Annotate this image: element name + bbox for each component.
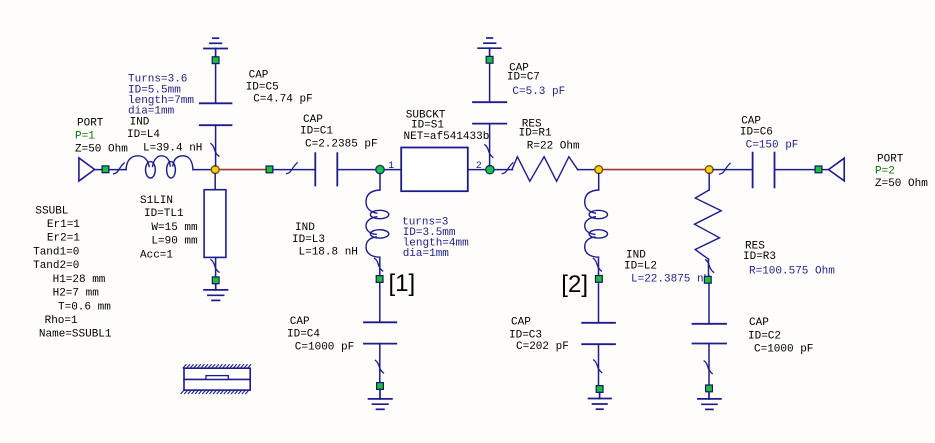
tune marker on R3 bottom <box>706 260 714 273</box>
wire <box>379 257 381 276</box>
inductor L2 labels <box>624 249 710 285</box>
wire <box>468 169 486 171</box>
svg-text:CAP: CAP <box>249 69 269 81</box>
wire <box>713 169 753 171</box>
svg-text:ID=R3: ID=R3 <box>743 251 776 263</box>
green handle on C4 bottom <box>377 383 384 390</box>
ground (top, C5 chain) <box>204 38 227 57</box>
tune marker on TL1 bottom <box>211 260 219 273</box>
resistor R1 labels <box>519 118 580 152</box>
svg-text:L=22.3875 nH: L=22.3875 nH <box>631 273 710 285</box>
svg-text:CAP: CAP <box>749 317 769 329</box>
svg-text:C=1000 pF: C=1000 pF <box>295 341 354 353</box>
tune marker on L3 bottom <box>375 258 383 271</box>
svg-text:ID=L4: ID=L4 <box>127 129 160 141</box>
tune marker on C2 bottom <box>704 361 712 374</box>
wire (red net) <box>599 169 710 171</box>
svg-text:ID=L2: ID=L2 <box>624 260 657 272</box>
wire <box>215 257 217 277</box>
svg-text:IND: IND <box>295 222 315 234</box>
wire <box>215 125 217 166</box>
svg-text:ID=C4: ID=C4 <box>287 329 320 341</box>
green handle on P2 wire <box>815 166 822 173</box>
svg-text:ID=C7: ID=C7 <box>507 72 540 84</box>
svg-text:H1=28 mm: H1=28 mm <box>53 274 106 286</box>
wire <box>494 169 512 171</box>
resistor R1 <box>512 157 578 182</box>
tune marker on C3 bottom <box>594 360 602 373</box>
tune marker on C6 wire <box>720 163 731 174</box>
green handle on C2 bottom <box>706 385 713 392</box>
resistor R3 labels <box>743 240 835 277</box>
svg-text:L=90 mm: L=90 mm <box>151 236 198 248</box>
svg-text:Tand1=0: Tand1=0 <box>33 246 79 258</box>
svg-text:PORT: PORT <box>877 153 904 165</box>
svg-text:Name=SSUBL1: Name=SSUBL1 <box>39 329 112 341</box>
wire <box>384 169 401 171</box>
capacitor C5 <box>200 103 232 125</box>
tune marker on R1 wire <box>502 163 513 174</box>
resistor R3 <box>695 190 722 259</box>
svg-text:Acc=1: Acc=1 <box>140 249 173 261</box>
svg-text:C=202 pF: C=202 pF <box>516 341 569 353</box>
tune marker on C4 bottom <box>375 360 383 373</box>
svg-text:C=150 pF: C=150 pF <box>746 140 799 152</box>
green handle on L3 bottom <box>376 276 383 283</box>
svg-text:Er1=1: Er1=1 <box>47 219 80 231</box>
wire <box>337 169 376 171</box>
capacitor C4 <box>364 322 396 343</box>
wire <box>273 169 315 171</box>
svg-text:C=2.2385 pF: C=2.2385 pF <box>305 138 378 150</box>
tune marker on P1 wire <box>114 163 125 174</box>
wire <box>379 344 381 383</box>
wire <box>578 169 595 171</box>
wire <box>708 259 710 276</box>
svg-text:ID=R1: ID=R1 <box>519 128 552 140</box>
wire <box>708 174 710 191</box>
wire <box>379 174 381 191</box>
svg-text:P=1: P=1 <box>75 130 95 142</box>
svg-text:dia=1mm: dia=1mm <box>403 248 450 260</box>
svg-text:R=100.575 Ohm: R=100.575 Ohm <box>749 265 835 277</box>
green handle on C3 bottom <box>596 386 603 393</box>
svg-text:C=5.3 pF: C=5.3 pF <box>512 86 565 98</box>
wire <box>708 344 710 386</box>
wire <box>214 174 216 190</box>
svg-text:[1]: [1] <box>389 270 416 297</box>
svg-text:ID=C2: ID=C2 <box>748 330 781 342</box>
svg-text:Er2=1: Er2=1 <box>47 233 80 245</box>
svg-text:Rho=1: Rho=1 <box>45 315 78 327</box>
wire <box>109 169 126 171</box>
capacitor C2 <box>693 324 727 344</box>
port P1 <box>75 118 128 181</box>
wire <box>95 169 103 171</box>
green handle on C5 top <box>212 57 219 64</box>
ground (TL1) <box>204 284 228 301</box>
svg-text:NET=af541433b: NET=af541433b <box>404 131 490 143</box>
tune marker on C7 chain <box>485 145 493 158</box>
node B junction (yellow) <box>595 166 603 174</box>
transmission line TL1 labels <box>140 195 198 261</box>
port P2 <box>829 153 929 190</box>
svg-text:S1LIN: S1LIN <box>140 195 173 207</box>
tune marker on C1 wire <box>287 163 298 174</box>
svg-text:CAP: CAP <box>303 114 323 126</box>
wire <box>598 257 600 275</box>
svg-text:ID=C5: ID=C5 <box>246 81 279 93</box>
inductor L4 labels <box>127 116 202 154</box>
inductor L3 <box>366 190 389 257</box>
svg-text:CAP: CAP <box>290 316 310 328</box>
svg-text:2: 2 <box>476 161 482 172</box>
capacitor C2 labels <box>748 317 813 355</box>
node C junction (yellow) <box>705 166 713 174</box>
svg-text:ID=L3: ID=L3 <box>292 234 325 246</box>
ground (C2) <box>698 392 721 410</box>
wire <box>598 282 600 323</box>
wire <box>708 283 710 324</box>
svg-text:ID=C6: ID=C6 <box>740 127 773 139</box>
wire (red net) <box>215 169 269 171</box>
wire <box>775 169 816 171</box>
svg-text:R=22 Ohm: R=22 Ohm <box>527 141 580 153</box>
node 1 junction (green) <box>376 165 384 173</box>
capacitor C5 labels <box>246 69 313 105</box>
wire <box>598 344 600 385</box>
svg-text:IND: IND <box>130 116 150 128</box>
green handle on TL1 bottom <box>212 277 219 284</box>
wire <box>489 63 491 102</box>
svg-text:W=15 mm: W=15 mm <box>151 222 198 234</box>
capacitor C4 labels <box>287 316 354 353</box>
substrate SSUBL1 icon <box>181 365 251 394</box>
svg-text:ID=C1: ID=C1 <box>300 125 333 137</box>
inductor L4 parameter text <box>128 74 194 118</box>
ground (top, C7 chain) <box>478 38 501 57</box>
svg-text:Z=50 Ohm: Z=50 Ohm <box>875 178 928 190</box>
transmission line TL1 <box>204 190 226 258</box>
substrate SSUBL parameter block <box>33 205 112 340</box>
capacitor C3 <box>582 323 615 344</box>
svg-text:CAP: CAP <box>511 316 531 328</box>
tune marker on C5 chain <box>211 144 219 157</box>
node 2 junction (green) <box>486 165 494 173</box>
green handle on P1 wire <box>102 166 109 173</box>
svg-text:H2=7 mm: H2=7 mm <box>53 288 100 300</box>
node A junction (yellow) <box>211 166 219 174</box>
ground (C3) <box>589 392 612 409</box>
svg-text:L=18.8 nH: L=18.8 nH <box>299 246 358 258</box>
wire <box>822 169 829 171</box>
wire <box>489 124 491 166</box>
svg-text:P=2: P=2 <box>875 165 895 177</box>
inductor L3 parameter text <box>402 217 469 261</box>
wire <box>598 174 600 191</box>
inductor L3 labels <box>292 222 358 258</box>
wire <box>193 169 212 171</box>
svg-text:L=39.4 nH: L=39.4 nH <box>143 142 202 154</box>
svg-text:C=4.74 pF: C=4.74 pF <box>253 93 312 105</box>
wire <box>215 64 217 104</box>
green handle on red wire <box>266 166 273 173</box>
subcircuit U1 labels <box>404 109 490 143</box>
capacitor C6 <box>753 153 775 188</box>
inductor L4 <box>126 156 193 178</box>
svg-text:PORT: PORT <box>77 118 104 130</box>
svg-text:Tand2=0: Tand2=0 <box>33 260 79 272</box>
capacitor C3 labels <box>509 316 569 353</box>
ground (C4) <box>369 389 392 409</box>
svg-text:dia=1mm: dia=1mm <box>128 106 175 118</box>
svg-text:SSUBL: SSUBL <box>35 205 68 217</box>
capacitor C6 labels <box>740 115 799 151</box>
capacitor C7 <box>473 102 506 123</box>
wire <box>379 282 381 322</box>
green handle on R3 bottom <box>704 276 711 283</box>
tune marker on L2 bottom <box>593 258 601 271</box>
subcircuit U1 box <box>401 148 468 192</box>
capacitor C1 labels <box>300 114 378 150</box>
svg-text:T=0.6 mm: T=0.6 mm <box>58 301 111 313</box>
capacitor C1 <box>315 153 337 185</box>
svg-text:Z=50 Ohm: Z=50 Ohm <box>75 144 128 156</box>
svg-text:[2]: [2] <box>561 271 588 298</box>
capacitor C7 labels <box>507 62 565 98</box>
green handle on L2 bottom <box>596 276 603 283</box>
svg-text:C=1000 pF: C=1000 pF <box>754 343 813 355</box>
svg-text:ID=S1: ID=S1 <box>411 120 444 132</box>
svg-text:ID=C3: ID=C3 <box>509 329 542 341</box>
svg-text:ID=TL1: ID=TL1 <box>144 208 184 220</box>
inductor L2 <box>585 190 608 257</box>
green handle on C7 top <box>486 56 493 63</box>
